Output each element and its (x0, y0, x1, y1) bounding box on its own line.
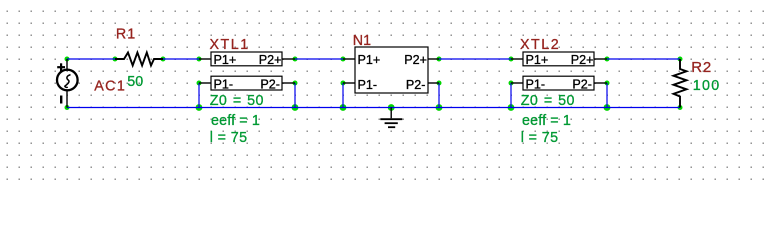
svg-text:P1+: P1+ (526, 53, 549, 67)
node XTL2 pin P1- (509, 81, 514, 86)
AC1 bottom lead (66, 90, 68, 107)
node XTL2 pin P1+ (509, 57, 514, 62)
svg-text:P1-: P1- (358, 78, 378, 92)
ground bar 3 (388, 126, 395, 128)
ground stem (390, 108, 392, 119)
node N1 pin P2+ (437, 57, 442, 62)
node R2 pin 1 (678, 57, 683, 62)
svg-text:P1+: P1+ (358, 53, 381, 67)
transmission line XTL1 bottom box (211, 76, 282, 90)
svg-text:R1: R1 (116, 27, 136, 43)
junction rail x=607 (604, 104, 611, 111)
svg-text:P2-: P2- (406, 78, 426, 92)
wire N1 P1- down (342, 83, 344, 108)
svg-text:P2-: P2- (572, 77, 592, 91)
svg-text:P1-: P1- (526, 77, 546, 91)
svg-text:100: 100 (693, 78, 721, 94)
node R2 pin 2 (678, 105, 683, 110)
wire top: AC1 to R1 (67, 58, 115, 60)
wire XTL1 P2- down (294, 83, 296, 108)
AC1 minus mark (60, 96, 62, 104)
node XTL1 pin P1+ (197, 57, 202, 62)
wire top: XTL2 P2+ to R2 (607, 58, 680, 60)
node N1 pin P2- (437, 81, 442, 86)
XTL2 top box pin stubs (511, 58, 523, 60)
svg-text:eeff = 1: eeff = 1 (522, 113, 571, 129)
wire top: XTL1 P2+ to N1 P1+ (295, 58, 343, 60)
XTL2 bottom box pin stubs (511, 82, 523, 84)
node XTL2 pin P2- (605, 81, 610, 86)
AC1 top lead (66, 59, 68, 70)
XTL1 bottom box pin stubs (199, 82, 211, 84)
svg-text:eeff = 1: eeff = 1 (211, 113, 260, 129)
ground bar 1 (380, 118, 402, 120)
resistor R1 (115, 53, 163, 66)
node XTL1 pin P2+ (293, 57, 298, 62)
svg-text:N1: N1 (353, 33, 371, 49)
wire XTL2 P1- down (510, 83, 512, 108)
svg-text:P1-: P1- (214, 77, 234, 91)
transmission line XTL1 top box (211, 52, 282, 66)
node XTL1 pin P2- (293, 81, 298, 86)
node N1 pin P1+ (341, 57, 346, 62)
junction rail x=439 (436, 104, 443, 111)
junction rail x=295 (292, 104, 299, 111)
node AC1 plus terminal (65, 57, 70, 62)
svg-text:R2: R2 (691, 59, 712, 76)
node AC1 minus terminal (65, 105, 70, 110)
wire bottom rail (67, 107, 680, 109)
ground bar 2 (385, 122, 398, 124)
svg-text:AC1: AC1 (94, 79, 126, 95)
svg-text:Z0 = 50: Z0 = 50 (521, 93, 575, 109)
junction rail x=343 (340, 104, 347, 111)
junction rail x=391 (ground) (388, 104, 395, 111)
svg-text:P2-: P2- (260, 77, 280, 91)
4-port N1 box (355, 47, 428, 93)
wire N1 P2- down (438, 83, 440, 108)
node N1 pin P1- (341, 81, 346, 86)
svg-text:50: 50 (127, 74, 143, 90)
wire XTL1 P1- down (198, 83, 200, 108)
transmission line XTL2 bottom box (523, 76, 594, 90)
AC1 plus mark (57, 66, 65, 68)
svg-text:XTL2: XTL2 (520, 37, 560, 53)
node R1 pin 2 (161, 57, 166, 62)
wire top: N1 P2+ to XTL2 P1+ (439, 58, 511, 60)
junction rail x=199 (196, 104, 203, 111)
junction rail x=511 (508, 104, 515, 111)
node XTL1 pin P1- (197, 81, 202, 86)
svg-text:P2+: P2+ (259, 53, 282, 67)
svg-text:XTL1: XTL1 (210, 37, 250, 53)
transmission line XTL2 top box (523, 52, 594, 66)
AC1 circle body (57, 70, 78, 91)
AC1 sine squiggle (65, 75, 71, 88)
AC source AC1 (57, 59, 78, 108)
node R1 pin 1 (113, 57, 118, 62)
svg-text:P2+: P2+ (571, 53, 594, 67)
wire XTL2 P2- down (606, 83, 608, 108)
svg-text:P2+: P2+ (404, 53, 427, 67)
node XTL2 pin P2+ (605, 57, 610, 62)
N1 pin stubs (343, 58, 355, 60)
svg-text:l = 75: l = 75 (210, 130, 248, 146)
svg-text:Z0 = 50: Z0 = 50 (210, 93, 264, 109)
wire top: R1 to XTL1 P1+ (163, 58, 199, 60)
resistor R2 (674, 59, 687, 108)
svg-text:l = 75: l = 75 (521, 130, 559, 146)
svg-text:P1+: P1+ (214, 53, 237, 67)
ground (380, 108, 402, 128)
XTL1 top box pin stubs (199, 58, 211, 60)
